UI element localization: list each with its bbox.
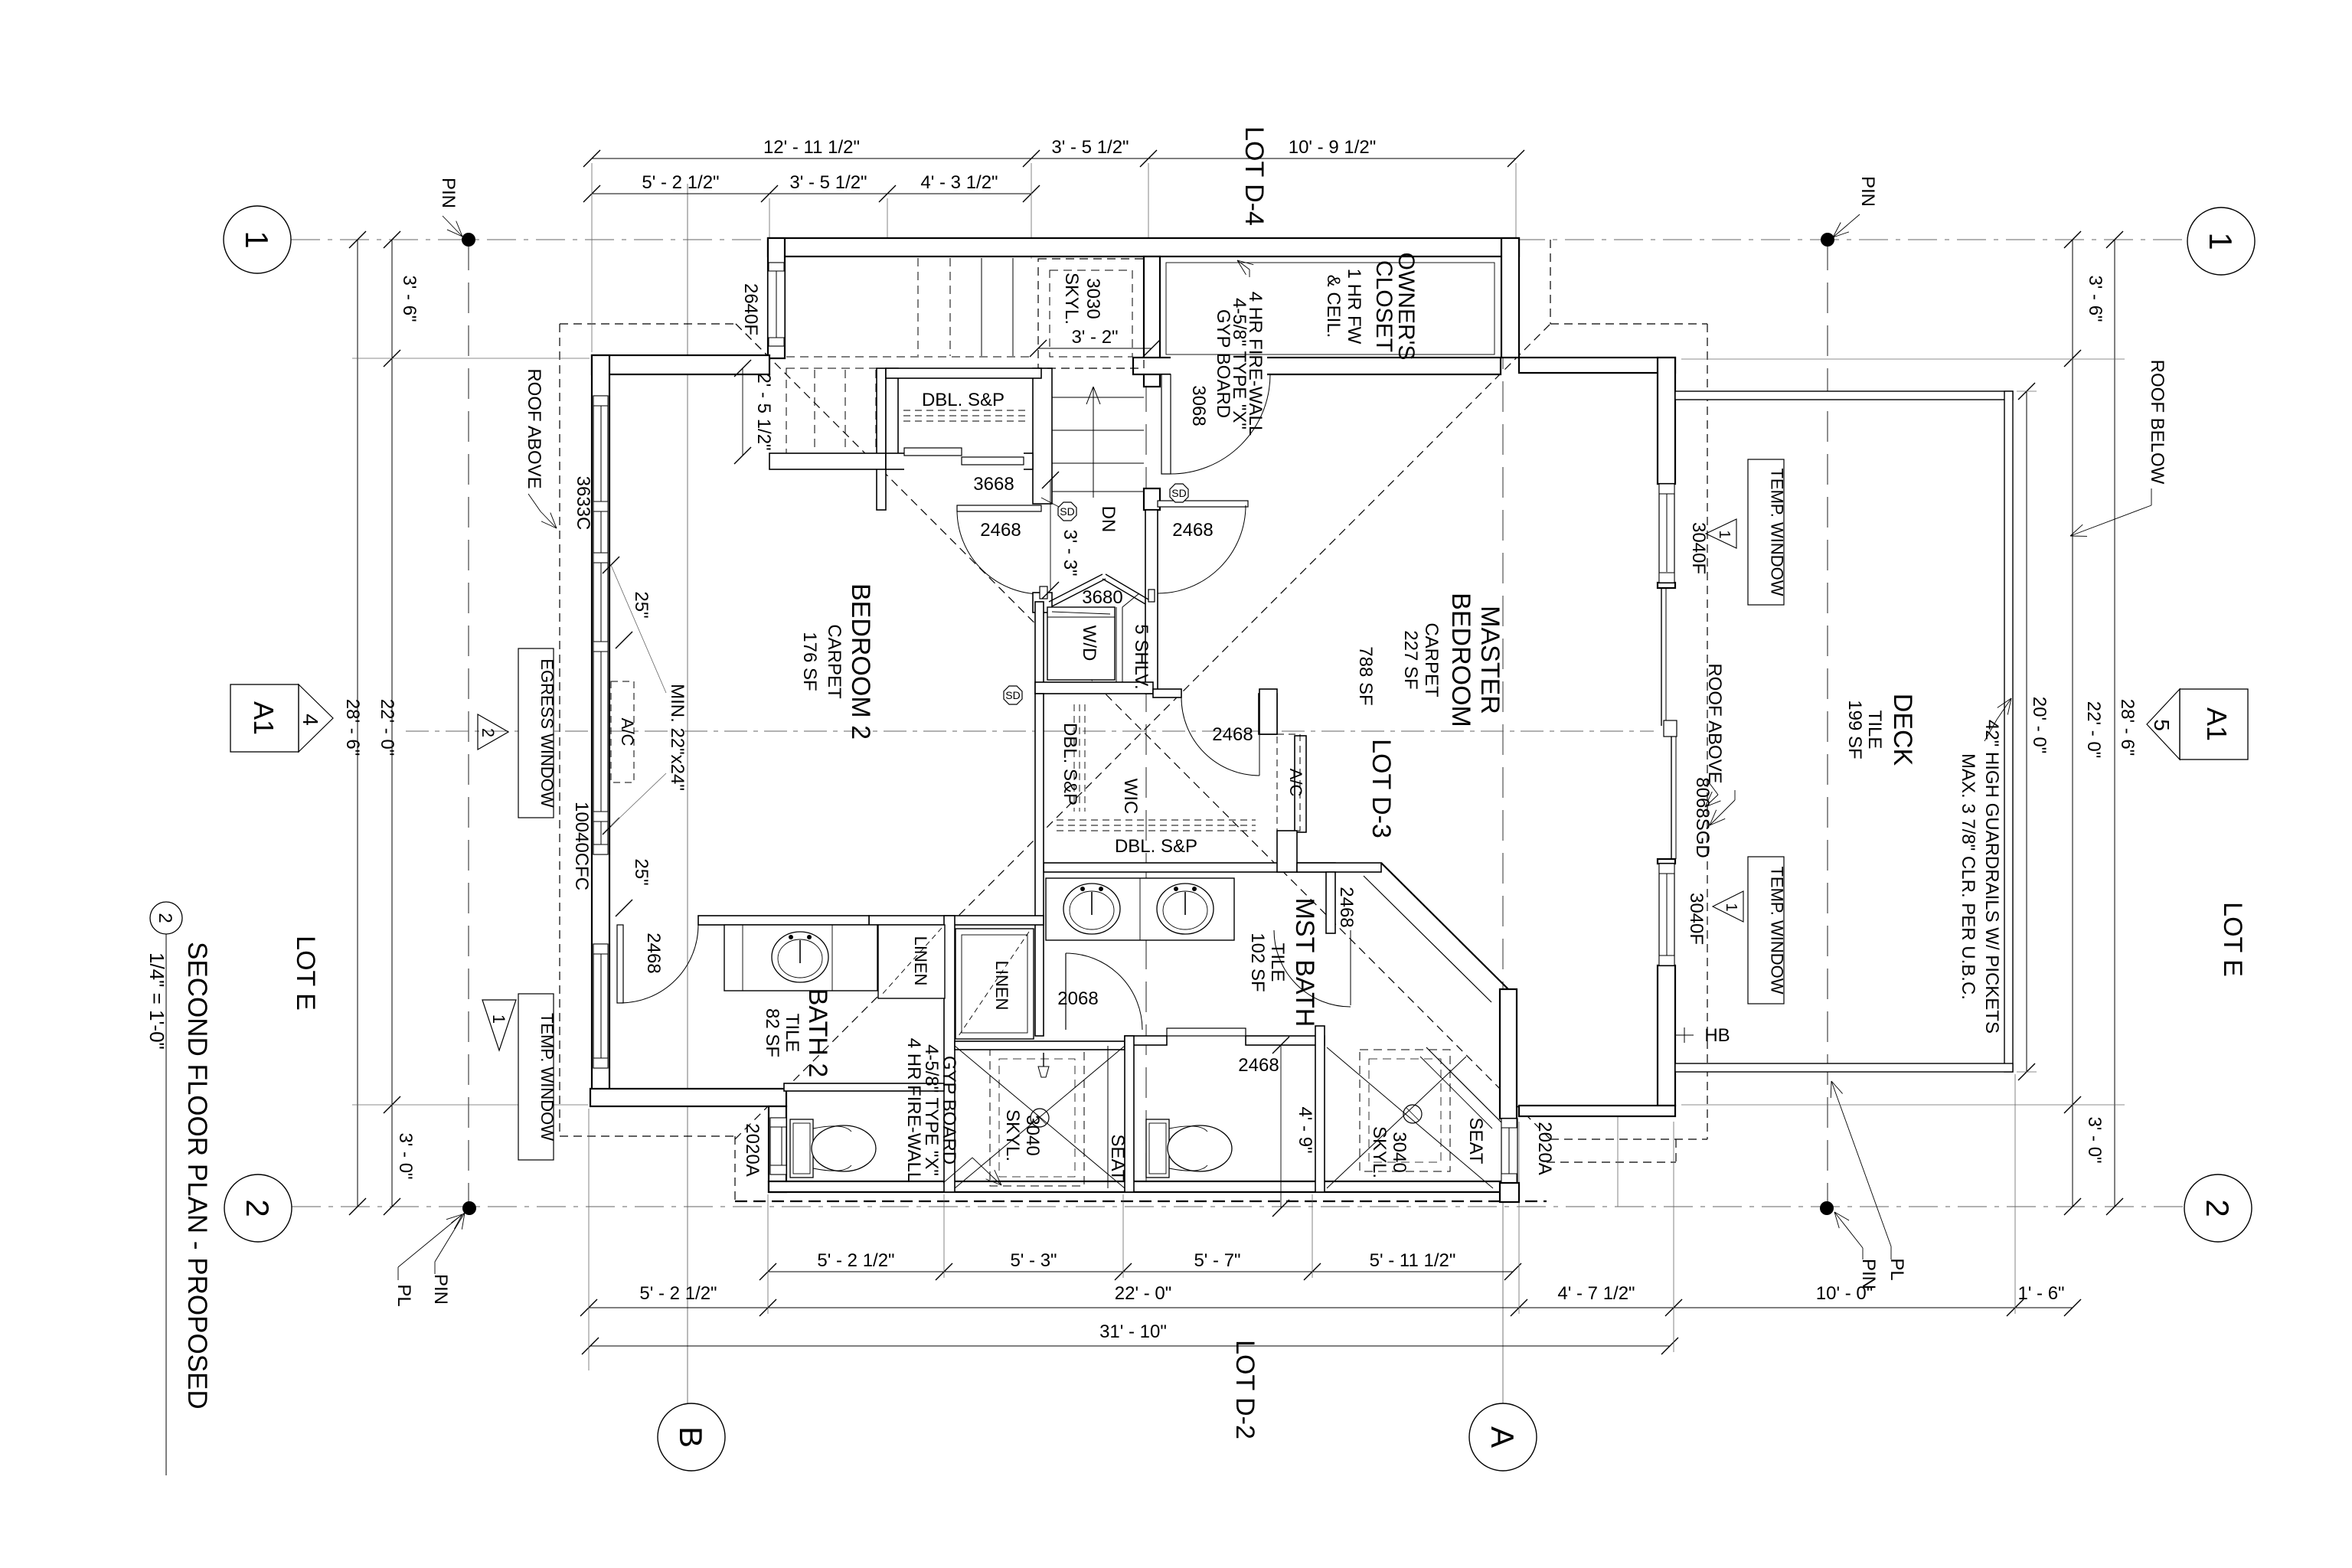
svg-text:PIN: PIN	[438, 178, 459, 208]
svg-text:SEAT: SEAT	[1107, 1135, 1128, 1181]
svg-text:2: 2	[240, 1199, 276, 1217]
svg-text:2068: 2068	[1057, 988, 1098, 1009]
svg-text:5' - 3": 5' - 3"	[1010, 1250, 1057, 1271]
svg-text:LINEN: LINEN	[911, 936, 930, 986]
svg-text:MST BATH: MST BATH	[1290, 898, 1319, 1027]
svg-text:227 SF: 227 SF	[1400, 630, 1421, 689]
svg-text:TILE: TILE	[1864, 710, 1885, 750]
svg-text:2020A: 2020A	[1534, 1122, 1555, 1174]
svg-text:MAX. 3 7/8" CLR. PER U.B.C.: MAX. 3 7/8" CLR. PER U.B.C.	[1958, 753, 1978, 1000]
svg-text:2020A: 2020A	[742, 1123, 763, 1176]
svg-text:DBL. S&P: DBL. S&P	[1115, 836, 1197, 857]
svg-text:31' - 10": 31' - 10"	[1099, 1321, 1167, 1342]
svg-text:SD: SD	[1060, 505, 1074, 518]
svg-text:MASTER: MASTER	[1475, 606, 1504, 714]
svg-text:CARPET: CARPET	[1421, 622, 1442, 697]
svg-text:GYP BOARD: GYP BOARD	[1213, 309, 1233, 418]
svg-text:10' - 9 1/2": 10' - 9 1/2"	[1289, 137, 1377, 158]
svg-text:5 SHLV.: 5 SHLV.	[1131, 624, 1151, 689]
svg-text:3040F: 3040F	[1686, 893, 1707, 945]
svg-text:LOT D-4: LOT D-4	[1240, 126, 1269, 226]
svg-text:3' - 3": 3' - 3"	[1060, 529, 1080, 576]
svg-text:LOT E: LOT E	[291, 936, 320, 1011]
svg-text:PL: PL	[394, 1284, 414, 1306]
svg-text:4 HR FIRE-WALL: 4 HR FIRE-WALL	[903, 1038, 924, 1182]
svg-text:LOT E: LOT E	[2218, 902, 2247, 977]
svg-text:1: 1	[489, 1014, 508, 1024]
svg-text:BATH 2: BATH 2	[803, 988, 832, 1078]
svg-text:PIN: PIN	[1857, 176, 1878, 207]
svg-text:2468: 2468	[1336, 887, 1357, 927]
svg-text:5' - 7": 5' - 7"	[1194, 1250, 1240, 1271]
svg-text:DBL. S&P: DBL. S&P	[922, 390, 1004, 410]
svg-text:10' - 0": 10' - 0"	[1816, 1283, 1873, 1304]
svg-text:A1: A1	[248, 701, 279, 735]
svg-text:2: 2	[479, 728, 498, 737]
svg-text:2: 2	[2200, 1199, 2236, 1217]
svg-text:LOT D-3: LOT D-3	[1367, 739, 1396, 838]
svg-text:GYP BOARD: GYP BOARD	[939, 1056, 959, 1165]
svg-text:CARPET: CARPET	[824, 624, 844, 699]
svg-text:20' - 0": 20' - 0"	[2029, 697, 2050, 753]
svg-text:2468: 2468	[1238, 1055, 1279, 1076]
svg-text:10040CFC: 10040CFC	[571, 802, 592, 890]
svg-text:ROOF ABOVE: ROOF ABOVE	[1704, 663, 1725, 783]
svg-text:1' - 6": 1' - 6"	[2017, 1283, 2064, 1304]
svg-text:BEDROOM: BEDROOM	[1446, 593, 1475, 727]
svg-text:LOT D-2: LOT D-2	[1230, 1340, 1259, 1439]
svg-text:SD: SD	[1005, 689, 1020, 701]
svg-text:SKYL.: SKYL.	[1002, 1109, 1023, 1161]
svg-text:5' - 2 1/2": 5' - 2 1/2"	[817, 1250, 894, 1271]
svg-text:5' - 2 1/2": 5' - 2 1/2"	[642, 172, 719, 193]
svg-text:TILE: TILE	[782, 1014, 802, 1053]
svg-text:3' - 5 1/2": 3' - 5 1/2"	[789, 172, 867, 193]
svg-text:5: 5	[2150, 719, 2174, 731]
svg-text:A1: A1	[2201, 707, 2233, 741]
svg-text:3' - 6": 3' - 6"	[399, 275, 420, 322]
svg-text:PL: PL	[1886, 1258, 1907, 1280]
svg-text:B: B	[673, 1426, 709, 1448]
svg-text:DN: DN	[1098, 506, 1119, 533]
svg-text:4-5/8" TYPE "X": 4-5/8" TYPE "X"	[921, 1044, 942, 1176]
svg-text:4' - 7 1/2": 4' - 7 1/2"	[1557, 1283, 1635, 1304]
svg-text:MIN. 22"x24": MIN. 22"x24"	[667, 684, 688, 791]
svg-text:1: 1	[239, 230, 275, 248]
svg-text:25": 25"	[631, 858, 652, 885]
svg-text:28' - 6": 28' - 6"	[2117, 699, 2138, 756]
svg-text:176 SF: 176 SF	[799, 632, 820, 691]
svg-text:1: 1	[1723, 903, 1739, 911]
svg-text:3' - 2": 3' - 2"	[1071, 327, 1118, 348]
svg-text:3668: 3668	[973, 474, 1014, 495]
svg-text:2640F: 2640F	[740, 283, 761, 335]
svg-text:102 SF: 102 SF	[1247, 933, 1268, 991]
svg-text:A/C: A/C	[618, 718, 637, 746]
svg-text:BEDROOM 2: BEDROOM 2	[846, 583, 875, 740]
svg-text:DBL. S&P: DBL. S&P	[1060, 723, 1080, 805]
svg-text:CLOSET: CLOSET	[1371, 260, 1396, 352]
svg-text:199 SF: 199 SF	[1844, 700, 1865, 759]
svg-text:3' - 5 1/2": 3' - 5 1/2"	[1051, 137, 1129, 158]
svg-text:SECOND FLOOR PLAN - PROPOSED: SECOND FLOOR PLAN - PROPOSED	[182, 942, 212, 1410]
svg-text:2468: 2468	[1212, 724, 1253, 745]
svg-text:4: 4	[299, 714, 322, 726]
svg-text:PIN: PIN	[430, 1274, 451, 1305]
svg-text:EGRESS WINDOW: EGRESS WINDOW	[537, 658, 557, 808]
svg-text:788 SF: 788 SF	[1355, 646, 1376, 705]
svg-text:22' - 0": 22' - 0"	[2083, 701, 2104, 758]
svg-text:ROOF ABOVE: ROOF ABOVE	[524, 368, 544, 488]
svg-text:SKYL.: SKYL.	[1369, 1126, 1390, 1178]
svg-text:TEMP. WINDOW: TEMP. WINDOW	[537, 1013, 557, 1141]
svg-text:5' - 2 1/2": 5' - 2 1/2"	[639, 1283, 717, 1304]
svg-text:3633C: 3633C	[573, 476, 593, 531]
svg-text:25": 25"	[631, 591, 652, 618]
svg-text:3' - 0": 3' - 0"	[2084, 1116, 2105, 1163]
svg-text:22' - 0": 22' - 0"	[1115, 1283, 1171, 1304]
svg-text:3030: 3030	[1083, 278, 1103, 318]
svg-text:SD: SD	[1171, 487, 1186, 499]
svg-text:& CEIL.: & CEIL.	[1323, 275, 1344, 338]
svg-text:HB: HB	[1704, 1025, 1730, 1046]
svg-text:SKYL.: SKYL.	[1061, 273, 1082, 325]
svg-text:A/C: A/C	[1286, 769, 1305, 797]
svg-text:22' - 0": 22' - 0"	[377, 699, 397, 756]
svg-text:42" HIGH GUARDRAILS W/ PICKETS: 42" HIGH GUARDRAILS W/ PICKETS	[1981, 720, 2002, 1034]
svg-text:3040F: 3040F	[1688, 522, 1709, 574]
svg-text:82 SF: 82 SF	[762, 1008, 782, 1057]
svg-text:3' - 0": 3' - 0"	[395, 1132, 416, 1179]
svg-text:1: 1	[1716, 530, 1733, 538]
svg-text:WIC: WIC	[1120, 779, 1141, 815]
svg-text:4' - 9": 4' - 9"	[1295, 1106, 1315, 1153]
svg-text:3040: 3040	[1022, 1115, 1043, 1155]
svg-text:TEMP. WINDOW: TEMP. WINDOW	[1768, 468, 1787, 596]
svg-text:ROOF BELOW: ROOF BELOW	[2147, 360, 2167, 485]
svg-text:TEMP. WINDOW: TEMP. WINDOW	[1768, 866, 1787, 994]
svg-text:1/4" = 1'-0": 1/4" = 1'-0"	[145, 952, 168, 1050]
svg-text:3068: 3068	[1188, 385, 1209, 426]
svg-text:4' - 3 1/2": 4' - 3 1/2"	[920, 172, 998, 193]
svg-text:1: 1	[2203, 232, 2239, 250]
svg-text:12' - 11 1/2": 12' - 11 1/2"	[763, 137, 860, 158]
svg-text:5' - 11 1/2": 5' - 11 1/2"	[1370, 1250, 1456, 1271]
svg-text:W/D: W/D	[1079, 626, 1099, 661]
svg-text:2' - 5 1/2": 2' - 5 1/2"	[753, 373, 774, 450]
svg-text:2468: 2468	[1172, 520, 1213, 541]
svg-text:1 HR FW: 1 HR FW	[1344, 269, 1364, 345]
svg-text:3' - 6": 3' - 6"	[2085, 275, 2105, 322]
svg-text:A: A	[1485, 1426, 1521, 1448]
svg-text:SEAT: SEAT	[1465, 1118, 1486, 1165]
svg-text:8068SGD: 8068SGD	[1692, 777, 1713, 857]
svg-text:3040: 3040	[1389, 1132, 1410, 1172]
svg-text:2: 2	[155, 913, 175, 923]
svg-text:2468: 2468	[643, 933, 664, 973]
svg-text:3680: 3680	[1082, 587, 1122, 608]
svg-text:2468: 2468	[980, 520, 1021, 541]
svg-text:TILE: TILE	[1267, 943, 1288, 982]
svg-text:28' - 6": 28' - 6"	[342, 699, 363, 756]
svg-text:LINEN: LINEN	[992, 961, 1011, 1011]
svg-text:DECK: DECK	[1888, 694, 1917, 766]
